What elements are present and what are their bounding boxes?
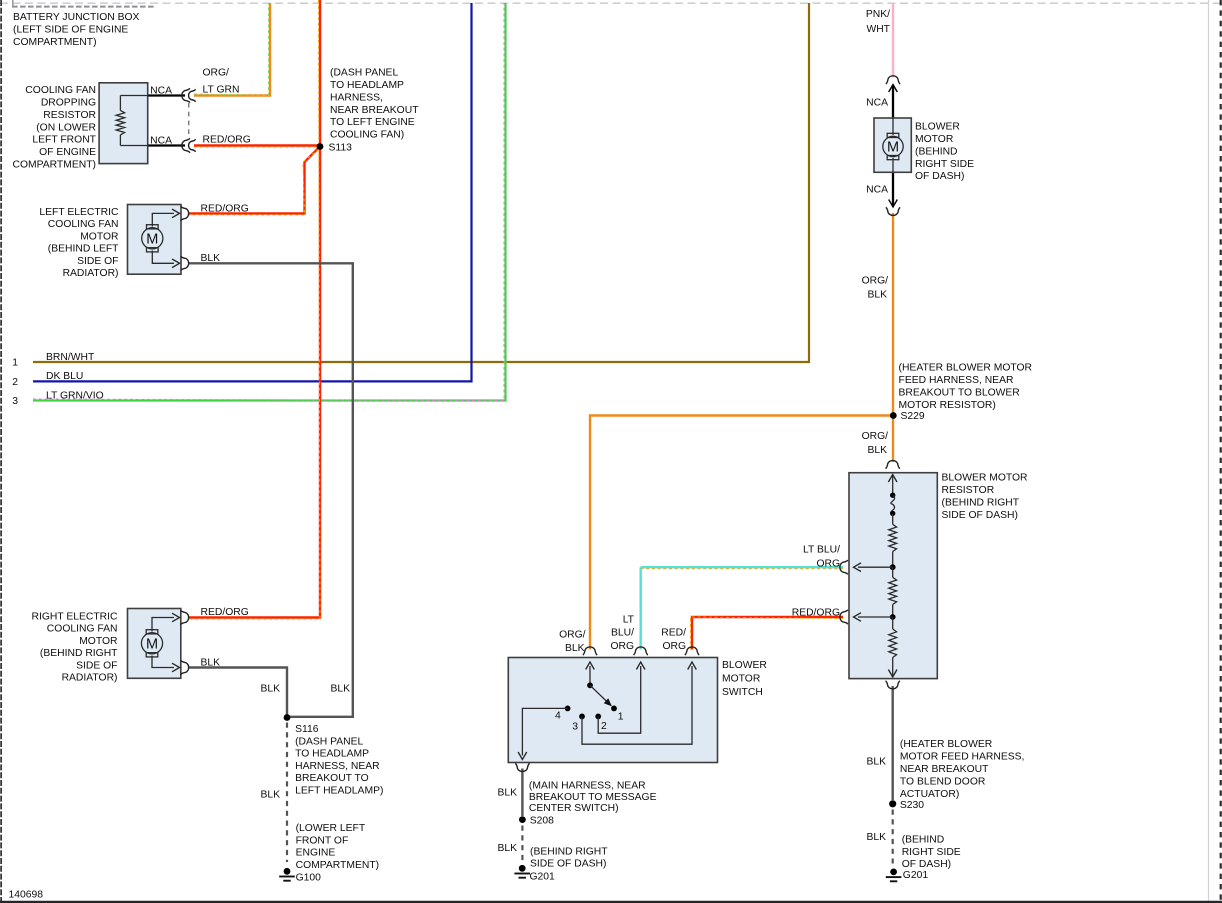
- svg-text:(LOWER LEFT: (LOWER LEFT: [296, 823, 366, 834]
- svg-text:(ON LOWER: (ON LOWER: [36, 122, 96, 133]
- svg-text:BLK: BLK: [201, 657, 221, 668]
- svg-text:M: M: [887, 140, 899, 156]
- svg-text:HARNESS, NEAR: HARNESS, NEAR: [295, 761, 380, 772]
- svg-text:RESISTOR: RESISTOR: [43, 110, 96, 121]
- svg-text:BLK: BLK: [201, 253, 221, 264]
- svg-text:LT GRN: LT GRN: [203, 84, 240, 95]
- svg-text:OF ENGINE: OF ENGINE: [39, 147, 96, 158]
- svg-text:ORG/: ORG/: [862, 431, 889, 442]
- svg-text:BLOWER: BLOWER: [915, 122, 960, 133]
- svg-text:ORG/: ORG/: [203, 68, 230, 79]
- svg-text:4: 4: [555, 711, 561, 722]
- svg-text:(BEHIND: (BEHIND: [902, 835, 945, 846]
- svg-text:ORG/: ORG/: [862, 276, 889, 287]
- svg-text:G100: G100: [296, 873, 322, 884]
- svg-text:MOTOR: MOTOR: [79, 636, 117, 647]
- svg-text:(BEHIND LEFT: (BEHIND LEFT: [48, 244, 119, 255]
- svg-text:BLK: BLK: [497, 843, 517, 854]
- svg-text:ORG: ORG: [816, 559, 840, 570]
- svg-text:BRN/WHT: BRN/WHT: [46, 352, 95, 363]
- svg-text:MOTOR: MOTOR: [915, 134, 953, 145]
- svg-text:ORG/: ORG/: [559, 630, 586, 641]
- svg-text:S229: S229: [901, 411, 925, 422]
- svg-text:BLK: BLK: [330, 683, 350, 694]
- svg-text:S116: S116: [295, 724, 319, 735]
- svg-text:BLK: BLK: [565, 643, 585, 654]
- svg-text:NCA: NCA: [150, 86, 172, 97]
- svg-text:BLOWER MOTOR: BLOWER MOTOR: [942, 473, 1028, 484]
- svg-text:RED/ORG: RED/ORG: [201, 607, 249, 618]
- svg-text:S230: S230: [900, 800, 924, 811]
- svg-text:OF DASH): OF DASH): [915, 171, 964, 182]
- svg-text:RESISTOR: RESISTOR: [942, 485, 995, 496]
- svg-text:1: 1: [618, 711, 624, 722]
- svg-text:BLK: BLK: [866, 757, 886, 768]
- svg-text:SWITCH: SWITCH: [722, 687, 763, 698]
- svg-text:SIDE OF: SIDE OF: [76, 660, 117, 671]
- svg-text:COMPARTMENT): COMPARTMENT): [296, 860, 380, 871]
- svg-text:(DASH PANEL: (DASH PANEL: [330, 68, 398, 79]
- svg-text:RED/ORG: RED/ORG: [201, 203, 249, 214]
- svg-text:TO BLEND DOOR: TO BLEND DOOR: [900, 777, 985, 788]
- svg-text:TO HEADLAMP: TO HEADLAMP: [295, 749, 369, 760]
- svg-text:DROPPING: DROPPING: [41, 97, 96, 108]
- svg-text:(LEFT SIDE OF ENGINE: (LEFT SIDE OF ENGINE: [13, 24, 128, 35]
- svg-text:OF DASH): OF DASH): [902, 859, 951, 870]
- svg-text:S208: S208: [530, 816, 554, 827]
- svg-text:M: M: [146, 232, 158, 248]
- svg-text:ORG: ORG: [610, 641, 634, 652]
- svg-text:(BEHIND RIGHT: (BEHIND RIGHT: [942, 497, 1020, 508]
- svg-text:BLK: BLK: [867, 445, 887, 456]
- svg-text:BLK: BLK: [260, 790, 280, 801]
- svg-text:(HEATER BLOWER: (HEATER BLOWER: [900, 739, 992, 750]
- svg-text:G201: G201: [903, 870, 929, 881]
- svg-text:BLK: BLK: [497, 788, 517, 799]
- svg-text:BLK: BLK: [866, 832, 886, 843]
- svg-text:COOLING FAN: COOLING FAN: [48, 219, 119, 230]
- svg-text:(BEHIND RIGHT: (BEHIND RIGHT: [530, 846, 608, 857]
- svg-text:LEFT FRONT: LEFT FRONT: [32, 135, 96, 146]
- svg-text:PNK/: PNK/: [866, 9, 890, 20]
- svg-text:NCA: NCA: [866, 98, 888, 109]
- svg-text:COMPARTMENT): COMPARTMENT): [12, 160, 96, 171]
- svg-text:COMPARTMENT): COMPARTMENT): [13, 37, 97, 48]
- svg-text:G201: G201: [530, 872, 556, 883]
- svg-text:RED/ORG: RED/ORG: [203, 134, 251, 145]
- svg-text:2: 2: [601, 721, 607, 732]
- svg-text:LT GRN/VIO: LT GRN/VIO: [46, 390, 104, 401]
- svg-text:LEFT HEADLAMP): LEFT HEADLAMP): [295, 786, 383, 797]
- svg-text:LT BLU/: LT BLU/: [803, 545, 840, 556]
- svg-text:FRONT OF: FRONT OF: [296, 835, 349, 846]
- svg-text:S113: S113: [329, 143, 353, 154]
- svg-text:ACTUATOR): ACTUATOR): [900, 789, 959, 800]
- svg-text:MOTOR FEED HARNESS,: MOTOR FEED HARNESS,: [900, 752, 1025, 763]
- svg-text:MOTOR: MOTOR: [722, 674, 760, 685]
- svg-text:NEAR BREAKOUT: NEAR BREAKOUT: [900, 764, 989, 775]
- svg-text:RED/: RED/: [661, 628, 686, 639]
- svg-text:BREAKOUT TO MESSAGE: BREAKOUT TO MESSAGE: [529, 792, 657, 803]
- svg-text:(HEATER BLOWER MOTOR: (HEATER BLOWER MOTOR: [899, 363, 1033, 374]
- svg-text:COOLING FAN: COOLING FAN: [47, 624, 118, 635]
- svg-text:COOLING FAN): COOLING FAN): [330, 130, 404, 141]
- svg-text:1: 1: [12, 358, 18, 369]
- svg-text:BATTERY JUNCTION BOX: BATTERY JUNCTION BOX: [13, 12, 140, 23]
- svg-text:MOTOR: MOTOR: [80, 231, 118, 242]
- svg-text:DK BLU: DK BLU: [46, 371, 83, 382]
- svg-text:BREAKOUT TO: BREAKOUT TO: [295, 773, 369, 784]
- svg-text:(DASH PANEL: (DASH PANEL: [295, 736, 363, 747]
- svg-text:TO LEFT ENGINE: TO LEFT ENGINE: [330, 117, 415, 128]
- svg-text:CENTER SWITCH): CENTER SWITCH): [529, 803, 619, 814]
- svg-text:RADIATOR): RADIATOR): [62, 673, 118, 684]
- svg-text:BLU/: BLU/: [611, 628, 634, 639]
- svg-text:TO HEADLAMP: TO HEADLAMP: [330, 80, 404, 91]
- svg-text:RED/ORG: RED/ORG: [792, 608, 840, 619]
- svg-text:3: 3: [572, 721, 578, 732]
- svg-text:ENGINE: ENGINE: [296, 848, 336, 859]
- svg-text:3: 3: [12, 396, 18, 407]
- svg-text:NCA: NCA: [866, 185, 888, 196]
- svg-text:SIDE OF DASH): SIDE OF DASH): [942, 510, 1018, 521]
- svg-text:LEFT ELECTRIC: LEFT ELECTRIC: [39, 207, 119, 218]
- svg-text:HARNESS,: HARNESS,: [330, 92, 383, 103]
- svg-text:FEED HARNESS, NEAR: FEED HARNESS, NEAR: [899, 375, 1014, 386]
- svg-text:COOLING FAN: COOLING FAN: [25, 85, 96, 96]
- svg-text:LT: LT: [623, 614, 635, 625]
- svg-text:MOTOR RESISTOR): MOTOR RESISTOR): [899, 400, 996, 411]
- svg-text:BREAKOUT TO BLOWER: BREAKOUT TO BLOWER: [899, 387, 1020, 398]
- svg-text:140698: 140698: [9, 889, 44, 900]
- svg-text:(BEHIND: (BEHIND: [915, 146, 958, 157]
- svg-text:NEAR BREAKOUT: NEAR BREAKOUT: [330, 105, 419, 116]
- svg-text:WHT: WHT: [866, 24, 890, 35]
- svg-text:(MAIN HARNESS, NEAR: (MAIN HARNESS, NEAR: [529, 781, 646, 792]
- svg-text:RIGHT SIDE: RIGHT SIDE: [902, 847, 961, 858]
- svg-text:ORG: ORG: [662, 641, 686, 652]
- svg-text:RIGHT SIDE: RIGHT SIDE: [915, 159, 974, 170]
- svg-text:BLK: BLK: [867, 290, 887, 301]
- svg-text:SIDE OF DASH): SIDE OF DASH): [530, 859, 606, 870]
- svg-text:(BEHIND RIGHT: (BEHIND RIGHT: [40, 648, 118, 659]
- svg-text:BLOWER: BLOWER: [722, 660, 767, 671]
- svg-text:SIDE OF: SIDE OF: [77, 256, 118, 267]
- svg-text:RADIATOR): RADIATOR): [63, 268, 119, 279]
- svg-text:RIGHT ELECTRIC: RIGHT ELECTRIC: [31, 612, 118, 623]
- svg-text:NCA: NCA: [150, 136, 172, 147]
- svg-text:2: 2: [12, 377, 18, 388]
- svg-text:M: M: [146, 637, 158, 653]
- svg-text:BLK: BLK: [260, 683, 280, 694]
